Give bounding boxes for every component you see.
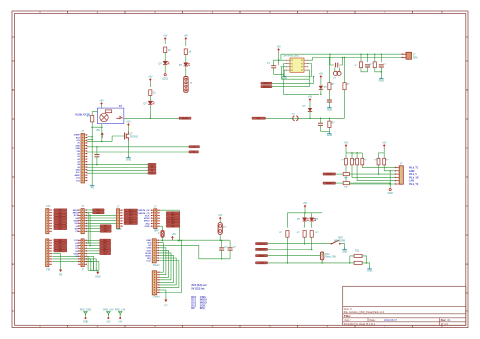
wire nest j8c: [86, 262, 99, 271]
svg-text:NRF24_CS: NRF24_CS: [138, 212, 150, 215]
wire: [127, 127, 129, 132]
svg-text:2N7002: 2N7002: [130, 135, 139, 138]
wire: [86, 240, 99, 253]
reed switch S2: [320, 252, 336, 260]
wire: [375, 67, 382, 73]
resistor RB4: [361, 153, 368, 165]
svg-text:SPK: SPK: [413, 57, 418, 59]
supply +5V br: [303, 202, 308, 208]
wire J10 v: [160, 226, 163, 230]
relay coil: [100, 113, 108, 121]
wire gate: [112, 136, 124, 141]
connector J1: [81, 130, 87, 183]
wire: [349, 173, 378, 175]
svg-text:F: F: [12, 309, 14, 313]
LED D7: [310, 218, 319, 221]
wire bus long2: [160, 290, 166, 300]
wire nest j8: [86, 256, 93, 270]
net tag J6r1: [86, 209, 104, 212]
wire: [266, 117, 345, 119]
supply +5V Q1: [126, 121, 131, 127]
svg-text:VIN: VIN: [77, 151, 81, 153]
ground J8: [95, 270, 101, 278]
wire: [52, 262, 94, 271]
wire: [320, 89, 322, 95]
net tag C: [148, 163, 156, 166]
wire: [335, 68, 340, 72]
svg-text:CE: CE: [75, 231, 79, 233]
svg-text:(=): (=): [164, 304, 167, 307]
supply +5V fuse: [218, 214, 223, 220]
svg-text:A: A: [12, 35, 14, 39]
net tag RELAY_OUT: [179, 117, 191, 120]
svg-text:+5V: +5V: [95, 128, 100, 132]
resistor R13: [310, 231, 319, 238]
svg-text:PAD_GND: PAD_GND: [80, 308, 92, 311]
svg-text:GND: GND: [282, 77, 288, 80]
wire: [389, 170, 391, 188]
supply +5V chain C: [148, 76, 153, 82]
wire: [162, 237, 164, 241]
wire: [101, 106, 103, 108]
wire: [309, 102, 311, 108]
wire: [321, 252, 323, 256]
labels J11: [145, 240, 151, 262]
net tag GPIO: [252, 117, 266, 120]
label relay: [75, 114, 90, 117]
wire W_a: [159, 239, 230, 241]
ground J1: [90, 184, 94, 190]
supply +5V U1: [276, 46, 281, 52]
wire: [268, 255, 321, 257]
supply +5V chain A: [163, 35, 168, 41]
wire: [272, 76, 314, 84]
supply +5V chain B: [184, 35, 189, 41]
capacitor C3: [365, 64, 373, 68]
svg-text:Rev:: Rev:: [441, 319, 447, 322]
wire t2: [87, 167, 148, 169]
svg-text:AREF: AREF: [74, 174, 80, 177]
jumper SJ1: [292, 113, 299, 120]
svg-text:RELAY: RELAY: [182, 117, 189, 120]
LED D1: [159, 61, 170, 65]
wire bus long1: [159, 261, 179, 288]
svg-text:MOSI: MOSI: [73, 210, 79, 212]
ground SW1: [342, 248, 348, 254]
wire: [352, 165, 396, 178]
note text 2: [191, 295, 207, 310]
fuse F1: [218, 223, 227, 235]
resistor R8: [343, 83, 350, 90]
net tag SW1: [261, 82, 272, 85]
diode D5: [303, 106, 313, 112]
wire W_b: [159, 245, 230, 259]
svg-text:GND: GND: [126, 158, 132, 161]
svg-text:+5V: +5V: [276, 46, 281, 49]
net tag BR4: [256, 262, 268, 265]
svg-text:REED: REED: [259, 255, 265, 257]
resistor R14: [354, 251, 362, 258]
resistor R2: [184, 49, 192, 55]
jumper SJ2: [158, 230, 164, 237]
wire J10 r1: [160, 210, 180, 241]
supply +5V bank1: [344, 142, 349, 148]
svg-text:GND: GND: [95, 276, 101, 279]
wire: [384, 165, 396, 171]
wire relay out: [124, 117, 179, 119]
svg-text:Date:: Date:: [370, 319, 376, 322]
transistor Q1: [125, 132, 139, 141]
svg-text:PE: PE: [91, 186, 95, 189]
wire nest j8b: [86, 259, 96, 270]
wire: [149, 82, 151, 87]
svg-text:IRQ: IRQ: [200, 306, 205, 310]
switch SW1: [330, 238, 345, 245]
svg-text:LED_R: LED_R: [258, 249, 265, 251]
wire: [339, 57, 343, 65]
wire: [185, 67, 187, 77]
wire: [278, 52, 280, 65]
LED D3: [144, 101, 155, 105]
resistor R9: [328, 118, 335, 132]
supply +5V bank2: [382, 142, 387, 148]
wire: [329, 57, 331, 83]
svg-text:P6: P6: [301, 67, 303, 69]
wire t4: [87, 172, 148, 174]
svg-text:+5V: +5V: [148, 76, 153, 79]
wire: [346, 165, 396, 185]
resistor R6: [368, 62, 376, 68]
connector J5: [46, 205, 52, 234]
svg-text:+5V: +5V: [344, 142, 349, 145]
svg-text:NRF: NRF: [154, 230, 159, 232]
junction: [329, 53, 368, 55]
wire: [320, 79, 322, 86]
svg-text:P3: P3: [291, 70, 293, 72]
capacitor C6: [327, 90, 332, 106]
svg-text:+5V: +5V: [163, 35, 168, 38]
connector J2 header: [184, 77, 193, 93]
svg-text:NRF: NRF: [117, 229, 122, 231]
supply +5V mid: [171, 233, 179, 241]
net tag SK2: [323, 182, 336, 185]
svg-text:LED_G: LED_G: [258, 243, 265, 245]
svg-text:P5: P5: [301, 63, 303, 65]
resistor RB1: [342, 153, 348, 165]
svg-text:GND: GND: [83, 320, 89, 323]
pad P2: [103, 308, 114, 323]
svg-text:+5V: +5V: [303, 202, 308, 205]
wire U1 p3 loop: [282, 67, 310, 79]
svg-text:D4: D4: [151, 170, 153, 172]
svg-text:P7: P7: [301, 70, 303, 72]
wire top2: [308, 58, 403, 61]
svg-text:P4: P4: [301, 60, 303, 62]
svg-text:SWCLK: SWCLK: [263, 86, 270, 88]
svg-text:SWDIO: SWDIO: [263, 83, 270, 85]
svg-text:R12: R12: [325, 254, 330, 256]
net tag F: [148, 172, 156, 175]
wire long94: [284, 79, 320, 94]
svg-text:B: B: [466, 88, 468, 92]
ground J7: [59, 270, 63, 277]
wire: [149, 105, 151, 118]
connector J9: [117, 205, 123, 231]
pin LED1 terminal: [162, 74, 169, 81]
svg-text:SW?: SW?: [338, 238, 344, 240]
svg-text:K?: K?: [119, 105, 123, 108]
wire: [91, 122, 93, 184]
wire: [274, 60, 279, 66]
svg-text:SCK: SCK: [145, 215, 150, 217]
net tag BR1: [256, 243, 268, 246]
wire: [344, 90, 346, 119]
svg-text:2019-05-07: 2019-05-07: [384, 319, 397, 322]
wire: [52, 254, 60, 270]
wire top1: [278, 54, 403, 61]
wire: [287, 209, 322, 214]
wire: [164, 41, 166, 44]
ground U1: [282, 74, 288, 80]
wire t3: [87, 169, 148, 171]
wire: [86, 215, 116, 217]
svg-text:P1: P1: [291, 63, 293, 65]
wire: [52, 256, 88, 270]
net tag BR2: [256, 248, 268, 251]
svg-text:SENS1: SENS1: [326, 174, 332, 176]
wire: [86, 220, 116, 222]
svg-text:J?B: J?B: [46, 269, 51, 272]
connector J4 Pi: [395, 163, 404, 185]
resistor RB3: [353, 153, 359, 165]
wire: [279, 59, 287, 61]
net tag D: [148, 166, 156, 169]
svg-text:LED1: LED1: [162, 77, 169, 80]
wire: [311, 213, 313, 228]
svg-text:Title:: Title:: [344, 314, 351, 318]
svg-text:GND: GND: [367, 270, 373, 273]
wire: [268, 243, 331, 245]
connector J11: [152, 239, 160, 267]
wire: [321, 130, 330, 132]
svg-text:+5V: +5V: [319, 73, 324, 76]
supply +5V d1: [319, 73, 324, 79]
svg-text:+5V: +5V: [106, 320, 111, 323]
wire: [349, 182, 390, 184]
svg-text:SCK: SCK: [74, 215, 79, 217]
svg-text:Reed_SW: Reed_SW: [325, 257, 336, 259]
wire: [321, 260, 323, 264]
wire: [379, 148, 385, 153]
wire: [304, 213, 306, 228]
svg-text:+3V: +3V: [118, 320, 123, 323]
wire: [284, 70, 286, 74]
resistor R1: [164, 47, 172, 53]
relay K1 box: [98, 105, 124, 123]
wire: [311, 237, 313, 250]
note text 1: [191, 283, 207, 290]
wire: [92, 111, 97, 115]
ground C7: [327, 131, 333, 137]
wire: [336, 182, 344, 184]
wire: [86, 217, 116, 219]
labels J4: [409, 166, 419, 186]
svg-text:E: E: [466, 262, 468, 266]
wire: [268, 262, 350, 264]
supply +5V relay: [99, 100, 104, 106]
net tag A: [189, 146, 200, 149]
wire: [149, 95, 151, 101]
wire: [304, 237, 306, 244]
tags J8a: [100, 239, 111, 255]
svg-text:SDA: SDA: [76, 169, 81, 172]
resistor R11: [279, 231, 289, 238]
svg-text:GPIO: GPIO: [256, 118, 261, 120]
svg-text:LOCK: LOCK: [259, 263, 265, 265]
resistor R4: [87, 115, 94, 122]
net tag BR3: [256, 255, 268, 258]
wire j1 v1: [87, 137, 92, 140]
svg-text:+5V: +5V: [184, 35, 189, 38]
net tag J6r2: [86, 212, 104, 215]
title block: [343, 286, 466, 326]
svg-text:GND: GND: [73, 254, 78, 256]
resistor R15: [354, 261, 362, 264]
ground Q1: [126, 141, 132, 162]
relay contact: [117, 116, 123, 119]
wire U1 p5: [281, 66, 282, 68]
LED D2: [179, 63, 190, 67]
wire relay bottom: [101, 124, 103, 143]
svg-text:Cat: /: Cat: /: [345, 319, 351, 322]
svg-text:ATTINY85-20SU: ATTINY85-20SU: [284, 54, 300, 57]
wire: [164, 53, 166, 61]
pad P3: [115, 308, 126, 323]
capacitor C2: [336, 63, 338, 68]
svg-text:E: E: [12, 262, 14, 266]
connector J8: [78, 239, 87, 272]
labels J10 pins: [138, 209, 150, 228]
labels J1 pins: [74, 135, 81, 183]
net tag SW2: [261, 86, 272, 89]
wire: [362, 165, 395, 168]
svg-text:GND: GND: [327, 134, 333, 137]
wire lock loop: [349, 256, 367, 264]
wire to tag1: [87, 146, 189, 148]
resistor R5: [355, 62, 363, 68]
junction: [179, 239, 221, 241]
resistor R12: [297, 231, 306, 238]
wire: [367, 54, 369, 62]
part ferrite F2: [343, 182, 349, 189]
tags J6b: [86, 225, 111, 233]
connector J10: [151, 205, 160, 232]
connector J7: [46, 239, 52, 272]
wire bus nest: [159, 243, 176, 285]
svg-text:A: A: [466, 35, 468, 39]
svg-text:GND: GND: [75, 145, 80, 147]
svg-text:D5: D5: [151, 173, 153, 175]
svg-text:GND: GND: [75, 148, 80, 150]
resistor R3: [149, 90, 157, 96]
wire: [330, 54, 334, 65]
resistor R7: [328, 83, 335, 90]
svg-text:5V [SJ] int.: 5V [SJ] int.: [191, 287, 205, 291]
svg-text:+5V: +5V: [308, 96, 313, 99]
svg-text:GND: GND: [327, 108, 333, 111]
svg-text:GND: GND: [388, 192, 394, 195]
svg-text:PiLk_T2: PiLk_T2: [409, 183, 419, 186]
wire: [336, 173, 344, 175]
wire: [286, 213, 288, 228]
capacitor C9: [228, 241, 237, 259]
svg-text:Id: 1/1: Id: 1/1: [441, 323, 449, 326]
svg-text:PE: PE: [59, 273, 63, 276]
tags J7: [54, 239, 67, 253]
wire: [357, 165, 396, 181]
wire: [268, 249, 312, 251]
wire: [272, 70, 309, 87]
wire: [164, 65, 166, 74]
relay resistor: [105, 110, 111, 113]
resistor RB2: [351, 153, 358, 165]
wire: [92, 126, 102, 128]
resistor RB5: [374, 153, 380, 165]
op-amp U1: [284, 54, 309, 72]
svg-text:IOREF: IOREF: [74, 135, 81, 137]
connector J6: [78, 205, 87, 234]
wire gnd bus: [88, 270, 99, 272]
svg-text:NRF24_CE: NRF24_CE: [138, 209, 150, 212]
svg-text:J?A: J?A: [46, 205, 51, 208]
tags J10: [166, 212, 180, 228]
svg-text:+5V: +5V: [382, 142, 387, 145]
wire: [52, 259, 91, 271]
wire t1: [87, 164, 148, 166]
wire: [374, 53, 376, 61]
wire: [346, 148, 362, 154]
wire: [378, 165, 396, 175]
wire: [360, 54, 362, 61]
net tag B: [189, 151, 199, 154]
wire: [309, 112, 311, 120]
junction: [150, 118, 152, 120]
wire: [219, 234, 221, 240]
crystal Y1: [333, 71, 341, 80]
supply +5V d2: [308, 96, 313, 102]
svg-text:D2: D2: [151, 164, 153, 166]
svg-text:P0: P0: [291, 60, 293, 62]
svg-text:R13: R13: [355, 251, 360, 253]
svg-text:B: B: [12, 88, 14, 92]
wire: [86, 222, 116, 224]
wire: [274, 68, 285, 75]
svg-text:GND: GND: [379, 79, 385, 82]
svg-text:GND: GND: [145, 226, 150, 228]
capacitor C4: [379, 53, 387, 67]
svg-text:PAD_+3V: PAD_+3V: [115, 308, 126, 311]
tags J9: [124, 209, 138, 225]
svg-text:MISO: MISO: [144, 221, 150, 223]
svg-text:+5V: +5V: [126, 121, 131, 124]
ground J4: [388, 189, 394, 196]
wire bus j6b: [89, 215, 91, 245]
svg-text:+5V: +5V: [99, 100, 104, 103]
svg-text:3V3 [SJ] ext.: 3V3 [SJ] ext.: [191, 283, 207, 287]
wire: [287, 237, 289, 263]
labels J6: [73, 210, 79, 233]
wire: [361, 67, 368, 72]
